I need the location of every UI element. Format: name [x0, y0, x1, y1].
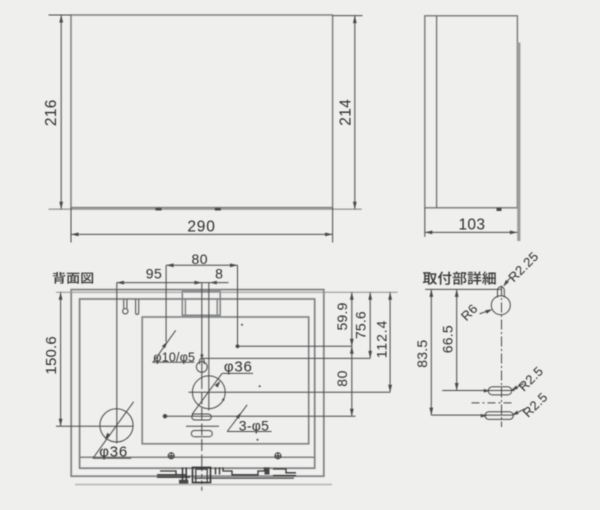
- svg-text:R2.25: R2.25: [505, 249, 541, 285]
- svg-text:8: 8: [215, 265, 223, 281]
- svg-text:103: 103: [459, 216, 486, 233]
- svg-text:66.5: 66.5: [439, 325, 455, 353]
- svg-text:80: 80: [192, 251, 209, 267]
- svg-text:75.6: 75.6: [353, 311, 369, 339]
- svg-text:290: 290: [187, 218, 215, 235]
- svg-text:R6: R6: [458, 301, 481, 324]
- svg-text:59.9: 59.9: [334, 302, 350, 330]
- svg-text:150.6: 150.6: [43, 336, 60, 375]
- svg-text:112.4: 112.4: [374, 320, 390, 359]
- svg-text:R2.5: R2.5: [515, 363, 546, 394]
- svg-text:214: 214: [338, 99, 355, 126]
- svg-text:83.5: 83.5: [414, 340, 430, 368]
- svg-text:216: 216: [43, 99, 60, 126]
- svg-text:95: 95: [146, 266, 163, 282]
- svg-text:R2.5: R2.5: [520, 389, 551, 420]
- svg-text:80: 80: [334, 370, 350, 387]
- svg-text:φ36: φ36: [224, 358, 253, 375]
